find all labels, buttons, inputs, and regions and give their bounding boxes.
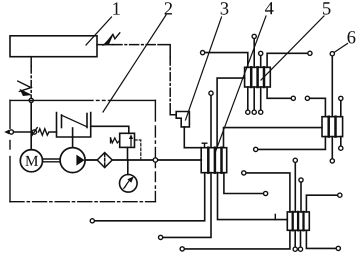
node on power-unit boundary <box>29 98 33 102</box>
wire: valve 6 top to left stub <box>305 96 325 116</box>
variable-stroke control box <box>57 113 91 138</box>
label 6 <box>348 31 356 43</box>
wire: valve 3 to valve 4 top-left <box>184 127 201 148</box>
wire: valve 5 top right to stub <box>267 51 312 67</box>
wire: valve 4 to stub port (circle) above <box>209 91 213 148</box>
stub port above valve 5 (tall) <box>252 34 256 67</box>
lightning arrow (electric signal) at box 1 output <box>103 33 120 46</box>
wire: valve 6 top tall stub (node 6) <box>330 52 334 117</box>
shaft coupling (double line) <box>43 159 61 162</box>
wire: valve 4 bottom to valve 7 left <box>218 173 288 220</box>
wire: valve 6 bottom to left stub <box>254 137 326 152</box>
directional valve 6 <box>322 117 343 137</box>
stub port above valve 6 right <box>339 96 343 116</box>
wire: valve 4 bottom port D to right stub <box>224 173 268 196</box>
leader line 1 <box>86 17 112 45</box>
pressure gauge <box>120 160 138 192</box>
wire: pump to stroke control <box>72 137 74 148</box>
wire: relief valve to main line <box>127 147 129 160</box>
valve 6 bottom stub ports <box>330 137 343 163</box>
electric motor M <box>20 150 42 172</box>
wire: valve 5 top to left stub <box>201 51 248 68</box>
leader line 4 <box>215 16 266 153</box>
lightning arrow (electric signal) at node <box>18 81 31 96</box>
wire: valve 7 bottom right to stub <box>306 230 340 250</box>
valve 5 bottom stub ports <box>246 87 263 114</box>
label 4 <box>265 2 274 14</box>
label 5 <box>323 2 331 14</box>
port node on boundary <box>153 158 157 162</box>
leader line 3 <box>186 17 222 120</box>
label 1 <box>113 2 120 14</box>
filter <box>97 153 112 168</box>
valve 7 top stub ports <box>293 158 303 212</box>
relief valve <box>111 133 135 147</box>
wire: box1 to valve 3 (electric, dash-dot) <box>97 45 176 115</box>
pilot valve 3 <box>176 112 189 127</box>
stub port above valve 5 (short) <box>259 51 263 67</box>
wire: valve 4 top to valve 6 left <box>224 128 323 148</box>
wire: valve 4 bottom port B to left stub <box>159 173 212 240</box>
directional valve 7 (bottom right) <box>287 212 309 230</box>
electrical control box 1 <box>10 36 97 57</box>
directional valve 4 <box>201 148 227 173</box>
wire: valve 7 top to left stub <box>242 171 290 212</box>
junction tick on wire <box>274 214 276 219</box>
label 2 <box>165 2 172 14</box>
leader line 5 <box>261 16 324 80</box>
wire: valve 4 top to valve 5 left <box>217 78 245 148</box>
main pressure line <box>85 159 201 161</box>
wire: box1 down to node on unit boundary (electric, dash-dot) <box>30 57 32 98</box>
power unit enclosure box 2 (dash-dot) <box>10 100 155 201</box>
wire: valve 7 bottom left long run <box>180 230 290 251</box>
feedback arrow and spring to stroke control <box>32 128 57 136</box>
wire: valve 7 top right to stub <box>306 193 342 212</box>
valve 7 bottom stub ports <box>293 230 303 251</box>
hydraulic pump <box>60 148 85 173</box>
wire: valve 4 bottom port A to left stub <box>90 173 204 223</box>
relief valve pilot line (dashed) <box>135 140 141 159</box>
wire: stroke control to relief valve <box>91 126 129 133</box>
leader line 2 <box>103 15 166 112</box>
leader line 6 <box>334 44 347 53</box>
label 3 <box>221 2 229 14</box>
plugged port symbol on valve 4 top <box>202 143 207 148</box>
directional valve 5 <box>245 67 271 87</box>
wire: node to motor <box>30 103 32 150</box>
feedback port with arrow on left boundary <box>4 130 32 134</box>
wire: valve 5 bottom right to stub <box>267 87 295 100</box>
